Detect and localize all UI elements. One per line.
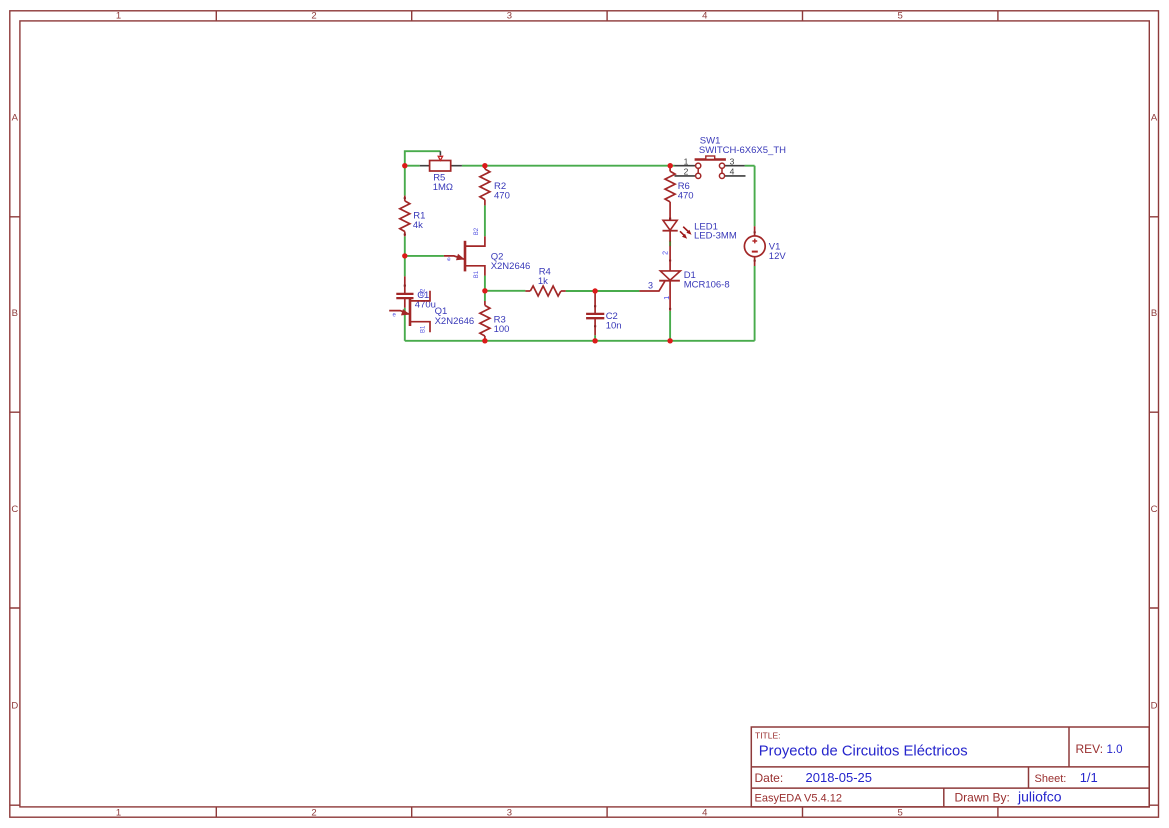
junction top-left node bbox=[402, 163, 407, 168]
wire R5 bypass bbox=[405, 151, 441, 166]
svg-text:4k: 4k bbox=[413, 220, 423, 231]
capacitor C1 bbox=[396, 276, 436, 310]
wire C2 bottom bbox=[594, 335, 596, 341]
wire left rail upper bbox=[404, 166, 406, 196]
top ruler ticks bbox=[216, 11, 998, 21]
svg-text:B1: B1 bbox=[474, 270, 480, 278]
left ruler ticks bbox=[10, 217, 20, 805]
junction R3 bottom node bbox=[482, 338, 487, 343]
svg-text:4: 4 bbox=[730, 166, 735, 176]
svg-text:3: 3 bbox=[648, 280, 653, 290]
svg-text:470: 470 bbox=[494, 191, 510, 202]
wire R4 to C2 node bbox=[566, 290, 640, 292]
svg-text:10n: 10n bbox=[606, 321, 622, 332]
svg-text:4: 4 bbox=[702, 11, 707, 22]
svg-text:Drawn By:: Drawn By: bbox=[955, 790, 1010, 804]
wire left rail mid bbox=[404, 236, 406, 276]
resistor R2 bbox=[480, 166, 510, 206]
svg-text:1MΩ: 1MΩ bbox=[433, 182, 453, 193]
wire top rail right bbox=[745, 165, 755, 167]
junction R6 top node bbox=[668, 163, 673, 168]
svg-text:MCR106-8: MCR106-8 bbox=[684, 280, 730, 291]
svg-text:C: C bbox=[11, 504, 18, 515]
junction C2 bottom node bbox=[592, 338, 597, 343]
svg-text:2: 2 bbox=[663, 251, 670, 255]
svg-text:REV:: REV: bbox=[1076, 742, 1104, 756]
svg-text:2: 2 bbox=[311, 807, 316, 818]
wire LED to D1 stub bbox=[669, 241, 671, 247]
svg-text:X2N2646: X2N2646 bbox=[435, 316, 475, 327]
transistor Q1 bbox=[389, 288, 474, 333]
wire bottom rail bbox=[405, 340, 755, 342]
svg-text:1: 1 bbox=[664, 296, 671, 300]
svg-text:470: 470 bbox=[678, 190, 694, 201]
junction R2 top node bbox=[482, 163, 487, 168]
svg-text:1.0: 1.0 bbox=[1107, 744, 1123, 756]
voltage source V1 bbox=[744, 226, 786, 266]
svg-text:SWITCH-6X6X5_TH: SWITCH-6X6X5_TH bbox=[699, 145, 786, 156]
svg-text:1: 1 bbox=[684, 156, 689, 166]
bottom ruler ticks bbox=[216, 807, 998, 817]
svg-text:12V: 12V bbox=[769, 251, 787, 262]
resistor R4 bbox=[525, 266, 565, 296]
svg-text:100: 100 bbox=[494, 324, 510, 335]
svg-text:B2: B2 bbox=[474, 227, 480, 235]
svg-text:juliofco: juliofco bbox=[1017, 789, 1062, 805]
svg-text:B: B bbox=[12, 308, 18, 319]
svg-text:B: B bbox=[1151, 308, 1157, 319]
wire mid horizontal to Q2 emitter bbox=[405, 255, 444, 257]
wire left rail lower bbox=[404, 308, 406, 341]
svg-text:2018-05-25: 2018-05-25 bbox=[806, 770, 873, 785]
svg-text:3: 3 bbox=[730, 156, 735, 166]
resistor R1 bbox=[400, 196, 426, 237]
svg-text:3: 3 bbox=[507, 807, 512, 818]
svg-text:1k: 1k bbox=[538, 276, 548, 287]
wire D1 cathode down bbox=[669, 311, 671, 341]
svg-text:Sheet:: Sheet: bbox=[1035, 773, 1067, 785]
svg-text:B1: B1 bbox=[420, 325, 426, 333]
svg-text:A: A bbox=[12, 113, 19, 124]
svg-text:LED-3MM: LED-3MM bbox=[694, 230, 737, 241]
junction D1 bottom node bbox=[667, 338, 672, 343]
svg-text:1/1: 1/1 bbox=[1080, 770, 1098, 785]
svg-text:D: D bbox=[1151, 700, 1158, 711]
svg-text:EasyEDA V5.4.12: EasyEDA V5.4.12 bbox=[755, 792, 842, 804]
svg-text:Proyecto de Circuitos Eléctric: Proyecto de Circuitos Eléctricos bbox=[759, 744, 968, 760]
junction B1 node bbox=[482, 288, 487, 293]
capacitor C2 bbox=[586, 291, 621, 335]
svg-text:A: A bbox=[1151, 113, 1158, 124]
svg-text:2: 2 bbox=[311, 11, 316, 22]
LED LED1 bbox=[663, 218, 737, 255]
wire top rail left bbox=[405, 165, 420, 167]
junction mid-left node bbox=[402, 253, 407, 258]
svg-text:3: 3 bbox=[507, 11, 512, 22]
right ruler ticks bbox=[1149, 217, 1158, 805]
wire Q2 B1 down bbox=[484, 276, 486, 301]
resistor R6 bbox=[665, 166, 693, 221]
svg-text:5: 5 bbox=[898, 807, 903, 818]
wire B1 node to R4 bbox=[485, 290, 526, 292]
svg-text:D: D bbox=[11, 700, 18, 711]
wire right rail upper bbox=[754, 166, 756, 227]
wire right rail lower bbox=[754, 266, 756, 341]
potentiometer R5 bbox=[420, 151, 462, 193]
svg-text:TITLE:: TITLE: bbox=[755, 731, 781, 741]
wire R2 to Q2 B2 bbox=[484, 205, 486, 236]
pin end marks bbox=[405, 197, 755, 327]
svg-text:1: 1 bbox=[116, 11, 121, 22]
switch SW1 bbox=[675, 135, 787, 178]
svg-text:5: 5 bbox=[898, 11, 903, 22]
svg-text:1: 1 bbox=[116, 807, 121, 818]
svg-text:X2N2646: X2N2646 bbox=[491, 261, 531, 272]
svg-text:2: 2 bbox=[684, 166, 689, 176]
wire top rail middle bbox=[462, 165, 675, 167]
junction C2 top node bbox=[592, 288, 597, 293]
transistor Q2 bbox=[444, 227, 530, 278]
svg-text:B2: B2 bbox=[420, 288, 426, 296]
SCR D1 bbox=[639, 246, 729, 311]
svg-text:C: C bbox=[1151, 504, 1158, 515]
svg-text:4: 4 bbox=[702, 807, 707, 818]
resistor R3 bbox=[480, 301, 510, 341]
title block bbox=[751, 727, 1149, 807]
svg-text:Date:: Date: bbox=[755, 771, 784, 785]
